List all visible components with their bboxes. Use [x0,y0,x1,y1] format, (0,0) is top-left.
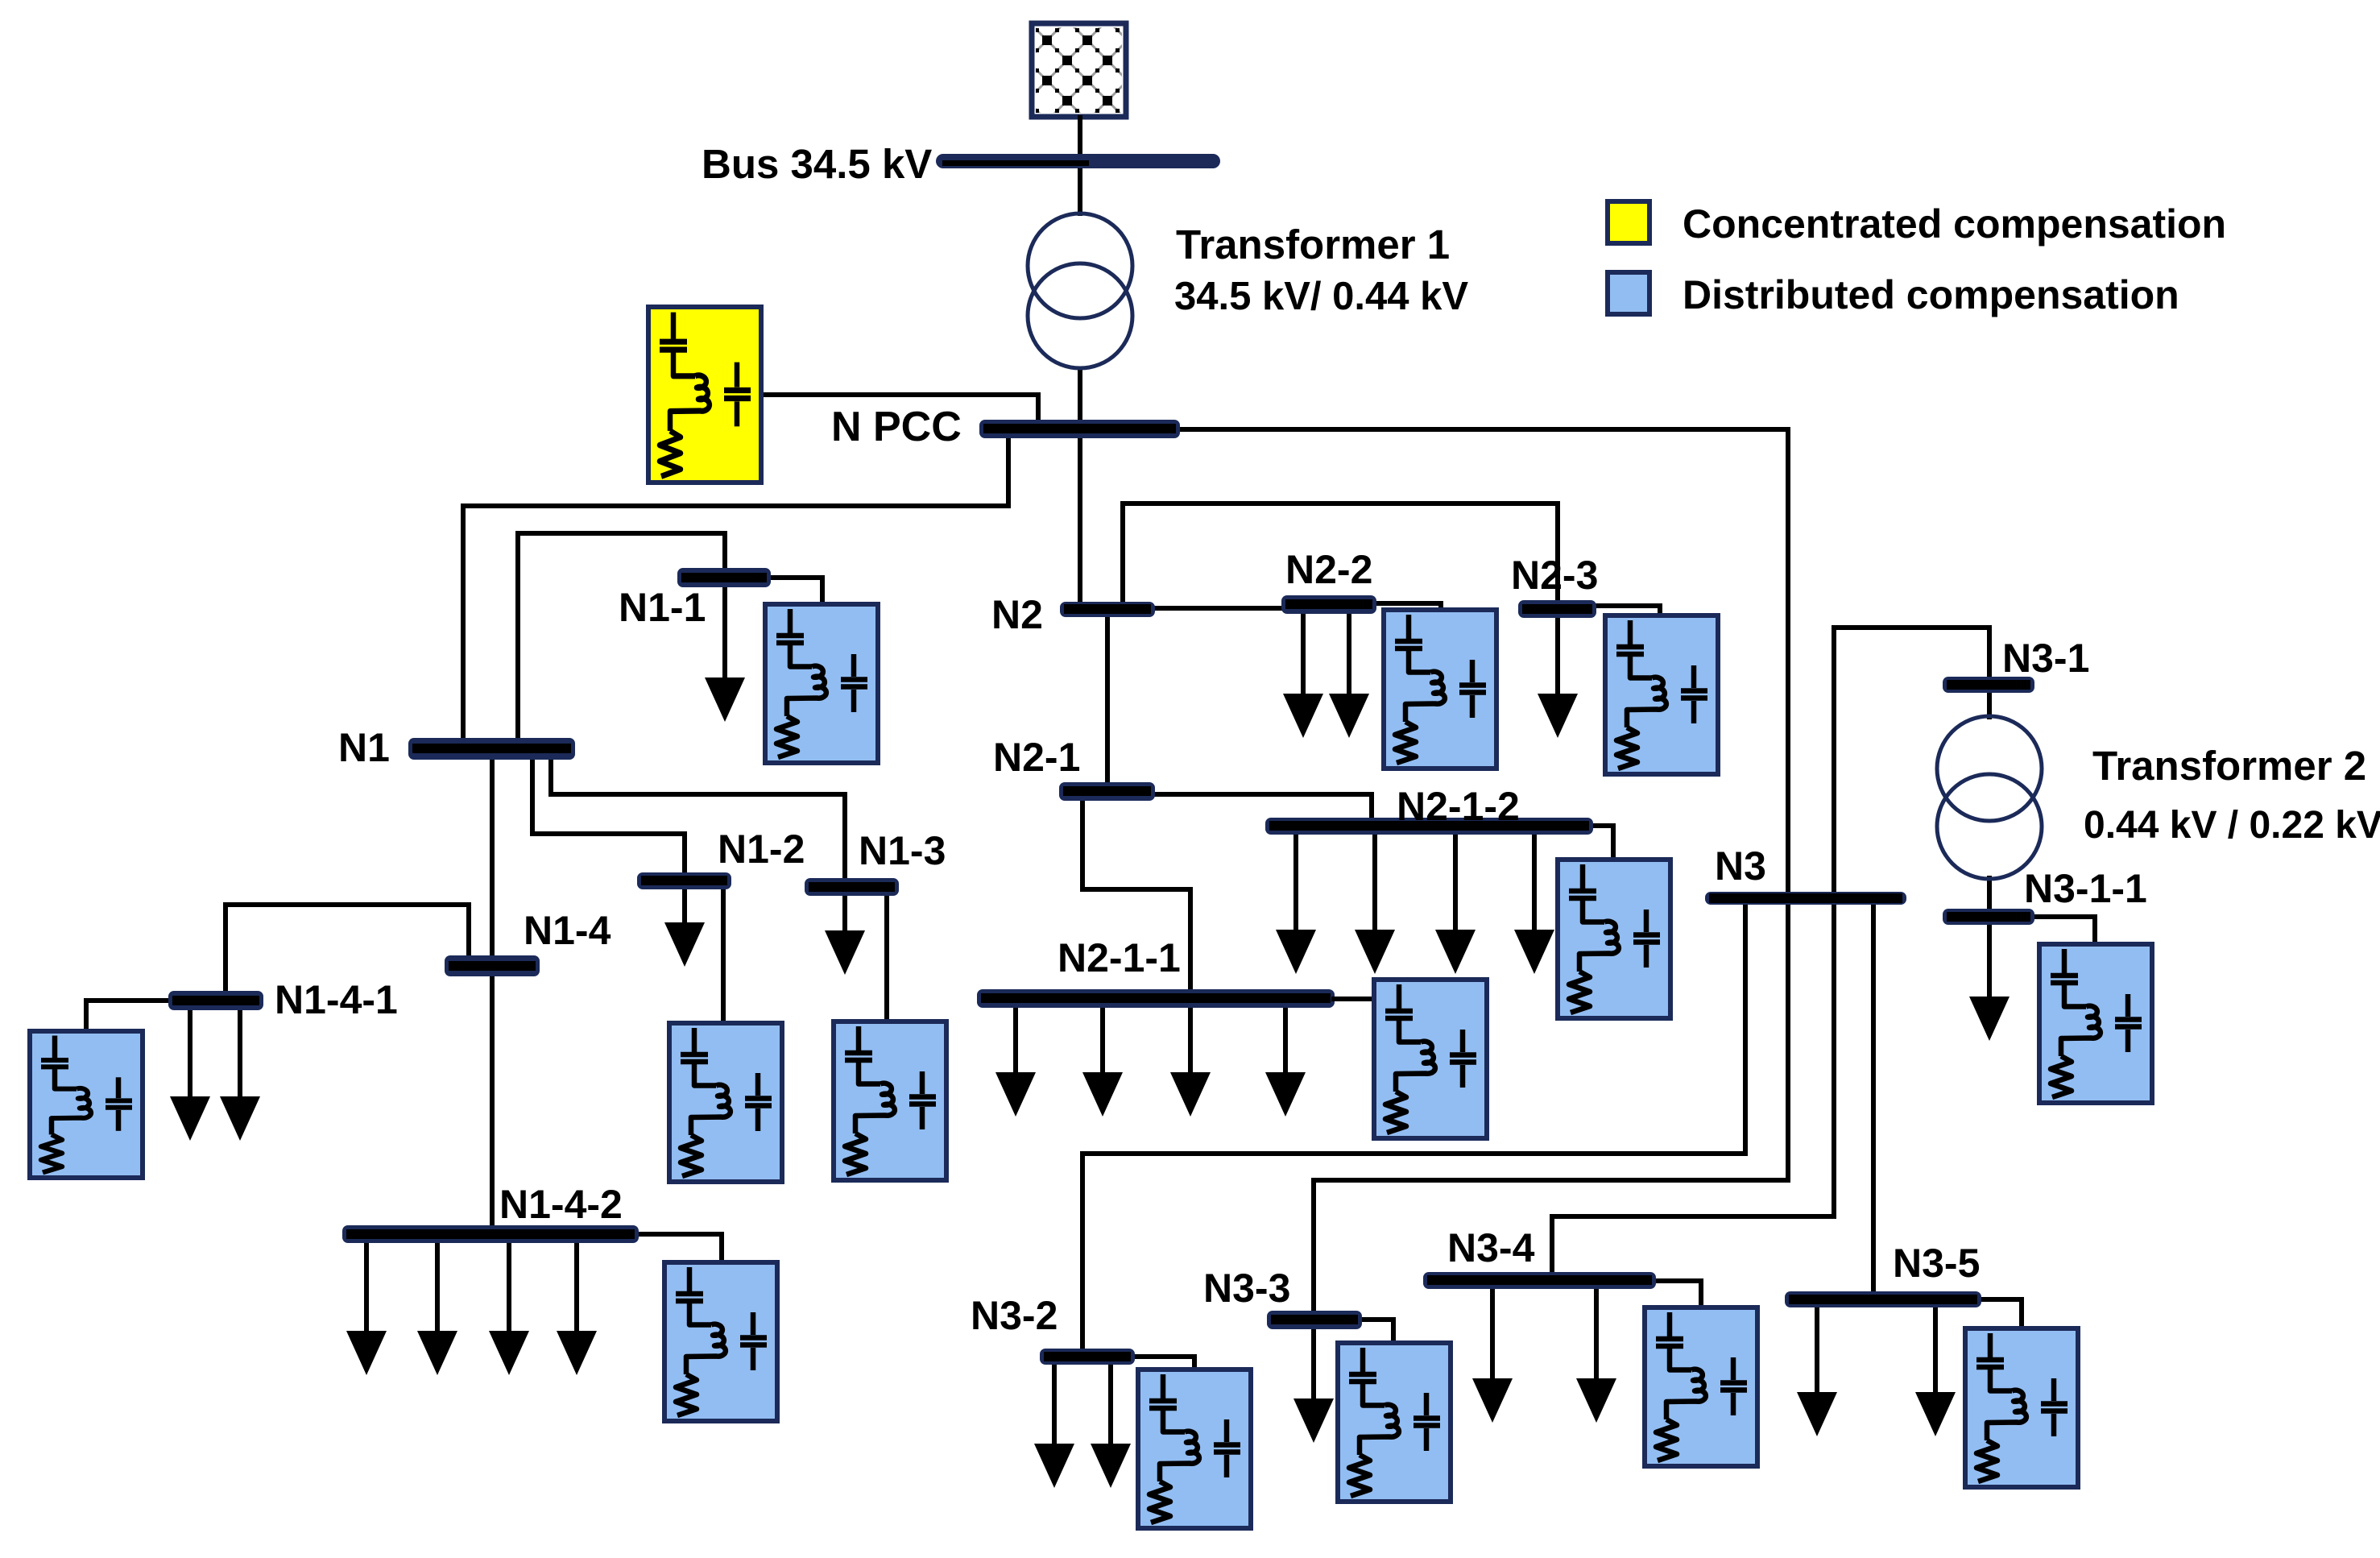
wire N3-5 to filter [1978,1299,2022,1330]
bus N3-3 [1267,1311,1362,1329]
bus N3-2 [1040,1349,1135,1365]
wire N1 to N1-3 [551,757,845,881]
load arrow N2-2 load b [1329,614,1369,738]
wire N2-1-2 to filter [1590,826,1613,861]
wire N1-1 to filter [769,578,822,606]
load arrow N2-1-1 load a [995,1008,1036,1117]
bus N2-1 [1059,782,1155,801]
load arrow N1-4-1 load b [220,1010,260,1141]
filter box distributed compensation N2-1-1 [1374,980,1487,1138]
filter box distributed compensation N1-4-1 [30,1031,143,1178]
bus Bus 34.5 kV [936,154,1220,168]
load arrow N3-3 load [1293,1329,1334,1443]
svg-text:N1-1: N1-1 [619,585,706,630]
wire transformer 1 to N PCC [1078,367,1082,423]
wire N2 to N2-3 [1123,503,1558,604]
svg-text:N2-2: N2-2 [1285,547,1372,592]
bus N1-4 [445,955,540,976]
wire N1-4-2 to filter [635,1234,722,1264]
filter box distributed compensation N1-4-2 [664,1262,777,1421]
wire N1-4-1 to filter [86,1001,172,1033]
load arrow N3-5 load a [1797,1307,1837,1436]
grid source (external network) [1032,23,1126,117]
wire N3 to N3-1 [1834,628,1989,894]
wire N2-1 to N2-1-1 [1082,798,1190,992]
bus N1 [408,738,575,760]
svg-text:34.5 kV/ 0.44 kV: 34.5 kV/ 0.44 kV [1174,275,1468,318]
load arrow N2-1-1 load d [1265,1008,1306,1117]
wire N2-1-1 to filter [1331,999,1376,1057]
load arrow N1-4-2 load a [346,1243,387,1375]
svg-text:N3: N3 [1715,843,1766,889]
load arrow N2-1-2 load a [1276,835,1316,974]
wire N3 to N3-3 [1314,902,1788,1315]
filter box distributed compensation N3-3 [1338,1343,1451,1502]
bus N2-3 [1518,600,1596,618]
load arrow N2-1-2 load d [1514,835,1554,974]
filter box distributed compensation N1-1 [765,604,878,763]
svg-text:N2: N2 [991,592,1043,637]
load arrow N1-2 load [664,889,705,967]
load arrow N3-4 load b [1576,1289,1616,1423]
svg-text:N3-3: N3-3 [1203,1266,1290,1311]
svg-text:N1-4-2: N1-4-2 [499,1182,623,1227]
svg-text:N1-3: N1-3 [859,828,946,873]
wire N1 to N1-2 [532,757,685,876]
wire transformer 2 to N3-1-1 [1987,876,1992,912]
bus N3-1 [1943,677,2034,693]
load arrow N1-4-2 load c [489,1243,529,1375]
load arrow N3-2 load b [1091,1365,1131,1488]
bus N2-1-1 [977,989,1335,1008]
bus N3 [1705,892,1906,905]
bus N2-2 [1281,595,1376,614]
wire N PCC to N1 [463,435,1008,741]
wire N3-3 to filter [1359,1320,1393,1345]
wire N2-1 to N2-1-2 [1152,794,1372,821]
wire N1 to N1-1 [518,533,725,741]
load arrow N1-4-2 load d [557,1243,597,1375]
wire bus 34.5 kV to transformer 1 [1078,166,1082,216]
svg-text:N3-5: N3-5 [1893,1241,1980,1286]
filter box concentrated compensation at N PCC [648,307,761,483]
filter box distributed compensation N1-2 [669,1023,782,1182]
svg-text:N1-4: N1-4 [524,908,611,953]
wire N1-2 to filter [721,886,726,1025]
filter box distributed compensation N2-3 [1605,615,1718,774]
filter box distributed compensation N1-3 [834,1021,946,1180]
load arrow N2-1-1 load c [1170,1008,1211,1117]
load arrow N1-3 load [825,896,865,975]
filter box distributed compensation N3-2 [1138,1369,1251,1528]
load arrow N1-4-1 load a [170,1010,210,1141]
load arrow N3-4 load a [1472,1289,1513,1423]
filter box distributed compensation N3-1-1 [2039,944,2152,1103]
load arrow N2-1-1 load b [1082,1008,1123,1117]
svg-text:Bus 34.5 kV: Bus 34.5 kV [702,141,932,187]
wire N2 to N2-2 [1152,606,1285,611]
bus N1-4-2 [342,1225,639,1243]
load arrow N1-1 load [705,587,745,722]
wire source to bus 34.5 kV [1078,115,1082,157]
transformer T1 [1028,213,1132,368]
wire N2-3 to filter [1593,606,1660,617]
bus N1-1 [677,568,771,587]
filter box distributed compensation N2-2 [1384,610,1496,769]
svg-text:N3-1: N3-1 [2002,636,2089,681]
svg-text:N2-1-2: N2-1-2 [1397,784,1520,829]
legend swatch concentrated compensation [1608,201,1649,243]
wire N3-1 to transformer 2 [1987,690,1992,719]
svg-text:N1-2: N1-2 [718,827,805,872]
load arrow N3-5 load b [1915,1307,1956,1436]
transformer T2 [1937,716,2042,879]
wire N1-4 to N1-4-1 [226,905,469,994]
svg-text:N1-4-1: N1-4-1 [275,977,398,1022]
legend swatch distributed compensation [1608,272,1649,314]
wire N PCC to N2 [1078,435,1082,604]
wire N3-2 to filter [1132,1357,1194,1376]
svg-text:Concentrated compensation: Concentrated compensation [1683,201,2226,247]
bus N2-1-2 [1265,818,1593,835]
load arrow N2-1-2 load b [1355,835,1395,974]
wire N2-2 to filter [1373,603,1441,611]
wire N3 to N3-2 [1082,902,1745,1352]
bus N3-1-1 [1943,909,2034,925]
wire N2 to N2-1 [1105,614,1110,785]
wire N3-4 to filter [1653,1281,1701,1309]
wire N3-1-1 to filter [2031,917,2095,946]
load arrow N2-2 load a [1283,614,1323,738]
load arrow N2-1-2 load c [1435,835,1476,974]
bus N3-5 [1785,1291,1981,1307]
filter box distributed compensation N3-5 [1965,1328,2078,1487]
bus N2 [1060,602,1155,617]
filter box distributed compensation N3-4 [1645,1307,1757,1466]
load arrow N1-4-2 load b [417,1243,457,1375]
bus N3-4 [1423,1272,1656,1289]
wire N1-3 to filter [884,893,889,1023]
wire N3 to N3-4 [1552,902,1834,1275]
svg-text:0.44 kV / 0.22 kV: 0.44 kV / 0.22 kV [2084,804,2380,847]
svg-text:Distributed compensation: Distributed compensation [1683,272,2179,317]
bus N PCC [979,420,1180,438]
svg-text:N3-4: N3-4 [1447,1225,1535,1270]
load arrow N3-1-1 load [1969,925,2010,1041]
svg-text:N3-2: N3-2 [971,1293,1058,1338]
wire N PCC to N3 [1178,429,1788,894]
load arrow N2-3 load [1538,618,1578,738]
svg-text:Transformer 2: Transformer 2 [2092,743,2366,789]
svg-text:Transformer 1: Transformer 1 [1176,222,1450,267]
bus N1-2 [637,872,731,889]
load arrow N3-2 load a [1034,1365,1074,1488]
svg-text:N2-1: N2-1 [993,735,1080,780]
filter box distributed compensation N2-1-2 [1558,860,1670,1018]
bus N1-3 [805,878,899,896]
wire N1 to N1-4 to N1-4-2 [490,757,495,1229]
svg-text:N PCC: N PCC [831,404,962,450]
svg-text:N3-1-1: N3-1-1 [2024,866,2147,911]
svg-text:N1: N1 [338,725,390,770]
svg-text:N2-1-1: N2-1-1 [1058,935,1181,980]
svg-text:N2-3: N2-3 [1511,553,1598,598]
bus N1-4-1 [168,991,263,1010]
wire concentrated compensation to N PCC [761,395,1038,423]
wire N3 to N3-5 [1871,902,1876,1295]
